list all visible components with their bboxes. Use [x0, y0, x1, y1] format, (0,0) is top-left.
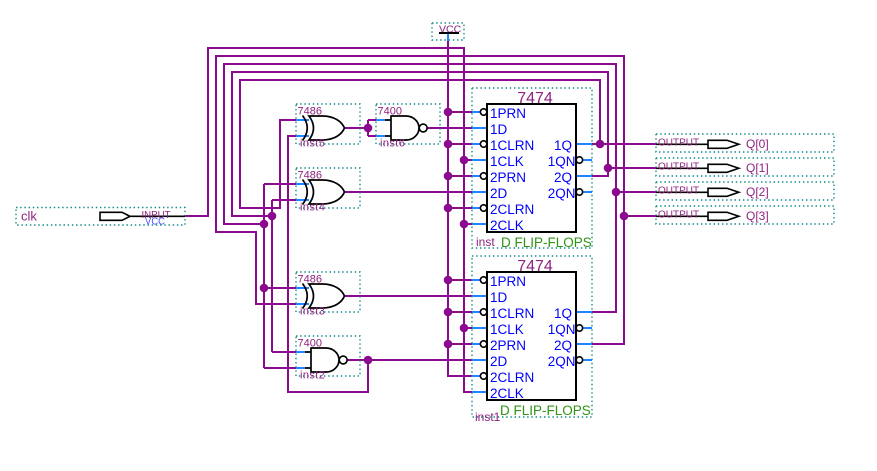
flip-flop chip U1 7474 D FLIP-FLOPS inst [472, 88, 592, 250]
svg-text:OUTPUT: OUTPUT [658, 210, 699, 221]
svg-text:1CLRN: 1CLRN [490, 306, 534, 321]
pin stubs right (1Q 1QN 2Q 2QN) [576, 144, 592, 192]
svg-text:7474: 7474 [517, 90, 553, 107]
wire net Q1 feedback from 2Q U1 around top-left to inst4 and inst2 [232, 72, 656, 352]
wire net Q0 feedback from 1Q U1 around top-left to inst5 input [240, 80, 656, 208]
node Q0 junction at 1Q [596, 140, 605, 149]
node Q2 junction at vertical [260, 220, 269, 229]
output port Q[0] [656, 134, 834, 152]
svg-text:OUTPUT: OUTPUT [658, 162, 699, 173]
U2 selection dotted box [472, 256, 592, 417]
svg-text:7486: 7486 [298, 274, 322, 286]
svg-text:inst4: inst4 [300, 202, 325, 214]
active-low bubbles on PRN/CLRN pins [480, 277, 486, 283]
node clk-2CLK1 junction [460, 220, 469, 229]
svg-text:OUTPUT: OUTPUT [658, 186, 699, 197]
wire clk stub to 1CLK U2 [464, 327, 472, 329]
wire inst3 output to 1D U2 [344, 295, 472, 297]
svg-text:inst6: inst6 [380, 138, 405, 150]
svg-text:2CLRN: 2CLRN [490, 202, 534, 217]
svg-text:7486: 7486 [298, 106, 322, 118]
wire VCC stub to 1PRN U2 [448, 279, 472, 281]
svg-text:D FLIP-FLOPS: D FLIP-FLOPS [500, 403, 591, 418]
svg-text:inst5: inst5 [300, 138, 325, 150]
pin stubs left (1PRN 1D 1CLRN 1CLK 2PRN 2D 2CLRN 2CLK) [472, 112, 487, 224]
xor gate inst5 (7486) [296, 104, 360, 150]
svg-text:1QN: 1QN [548, 154, 576, 169]
svg-text:2PRN: 2PRN [490, 170, 526, 185]
svg-text:VCC: VCC [145, 216, 165, 228]
wire net Q3 feedback from 2Q U2 around top-left to inst3 input [216, 56, 656, 344]
svg-text:1CLK: 1CLK [490, 154, 524, 169]
node Q3 junction to OUTPUT Q3 [620, 212, 629, 221]
svg-text:1D: 1D [490, 290, 508, 305]
U1 selection dotted box [472, 88, 592, 248]
svg-text:1PRN: 1PRN [490, 106, 526, 121]
pin stubs right (1Q 1QN 2Q 2QN) [576, 312, 592, 360]
wire VCC stub to 2PRN U1 [448, 175, 472, 177]
svg-text:2QN: 2QN [548, 354, 576, 369]
pin stubs left (1PRN 1D 1CLRN 1CLK 2PRN 2D 2CLRN 2CLK) [472, 280, 487, 392]
node Q2 junction to OUTPUT Q2 [612, 188, 621, 197]
node Q1 junction to OUTPUT Q1 [604, 164, 613, 173]
wire inst5 output to inst6 both inputs [344, 120, 376, 136]
wire VCC stub to 1CLRN U2 [448, 311, 472, 313]
wire net VCC vertical rail down to 2CLRN U2 [448, 40, 472, 376]
svg-text:2D: 2D [490, 354, 508, 369]
node inst5out junction [364, 124, 373, 133]
node Q1 junction at vertical [268, 212, 277, 221]
chip body outline [487, 104, 576, 232]
flip-flop chip U2 7474 D FLIP-FLOPS inst1 [472, 256, 592, 424]
svg-text:OUTPUT: OUTPUT [658, 138, 699, 149]
active-low bubbles on QN pins [576, 325, 582, 331]
svg-text:Q[3]: Q[3] [746, 209, 769, 223]
input port clk with VCC default value [16, 208, 185, 228]
wire inst2 output to 2D U2 and feedback to inst5 input [288, 136, 472, 392]
nand gate inst2 (7400) [296, 336, 360, 382]
node VCC junctions on rail [444, 108, 453, 349]
svg-text:1Q: 1Q [554, 138, 572, 153]
svg-text:2Q: 2Q [554, 170, 572, 185]
svg-text:7400: 7400 [378, 106, 402, 118]
svg-text:1CLK: 1CLK [490, 322, 524, 337]
node clk-1CLK2 junction [460, 324, 469, 333]
wire VCC stub to 2PRN U2 [448, 343, 472, 345]
svg-text:inst1: inst1 [475, 410, 501, 424]
svg-text:2D: 2D [490, 186, 508, 201]
svg-text:1CLRN: 1CLRN [490, 138, 534, 153]
node clk-1CLK1 junction [460, 156, 469, 165]
svg-text:Q[0]: Q[0] [746, 137, 769, 151]
power symbol VCC [432, 23, 464, 41]
svg-text:2CLK: 2CLK [490, 218, 524, 233]
svg-text:1Q: 1Q [554, 306, 572, 321]
nand gate inst6 (7400) [376, 104, 440, 150]
wire net Q2 feedback from 1Q U2 around top-left to inst4 inst3 inst2 [224, 64, 656, 368]
svg-text:7474: 7474 [517, 258, 553, 275]
svg-text:Q[1]: Q[1] [746, 161, 769, 175]
chip body outline [487, 272, 576, 400]
wire VCC stub to 2CLRN U1 [448, 207, 472, 209]
svg-text:2PRN: 2PRN [490, 338, 526, 353]
svg-text:1D: 1D [490, 122, 508, 137]
wire inst4 output to 2D U1 [344, 191, 472, 193]
node Q2 junction to inst3 input [260, 284, 269, 293]
wire VCC stub to 1PRN U1 [448, 111, 472, 113]
wire clk stub to 1CLK U1 [464, 159, 472, 161]
svg-text:7400: 7400 [298, 338, 322, 350]
output port Q[2] [656, 182, 834, 200]
svg-text:clk: clk [21, 209, 37, 224]
svg-text:inst: inst [476, 235, 495, 249]
svg-text:inst3: inst3 [300, 306, 325, 318]
svg-text:2Q: 2Q [554, 338, 572, 353]
output port Q[1] [656, 158, 834, 176]
svg-text:D FLIP-FLOPS: D FLIP-FLOPS [501, 235, 592, 250]
xor gate inst4 (7486) [296, 168, 360, 214]
wire VCC stub to 1CLRN U1 [448, 143, 472, 145]
svg-text:1QN: 1QN [548, 322, 576, 337]
svg-text:inst2: inst2 [300, 370, 325, 382]
svg-text:1PRN: 1PRN [490, 274, 526, 289]
svg-text:2CLK: 2CLK [490, 386, 524, 401]
active-low bubbles on QN pins [576, 157, 582, 163]
wire clk stub to 2CLK U1 [464, 223, 472, 225]
xor gate inst3 (7486) [296, 272, 360, 318]
svg-text:Q[2]: Q[2] [746, 185, 769, 199]
active-low bubbles on PRN/CLRN pins [480, 109, 486, 115]
svg-text:2CLRN: 2CLRN [490, 370, 534, 385]
svg-text:2QN: 2QN [548, 186, 576, 201]
node inst2out junction [364, 356, 373, 365]
wire inst6 output to 1D U1 [427, 127, 472, 129]
wire net clk from input pin up and across top to CLK column [185, 48, 472, 392]
output port Q[3] [656, 206, 834, 224]
svg-text:7486: 7486 [298, 170, 322, 182]
